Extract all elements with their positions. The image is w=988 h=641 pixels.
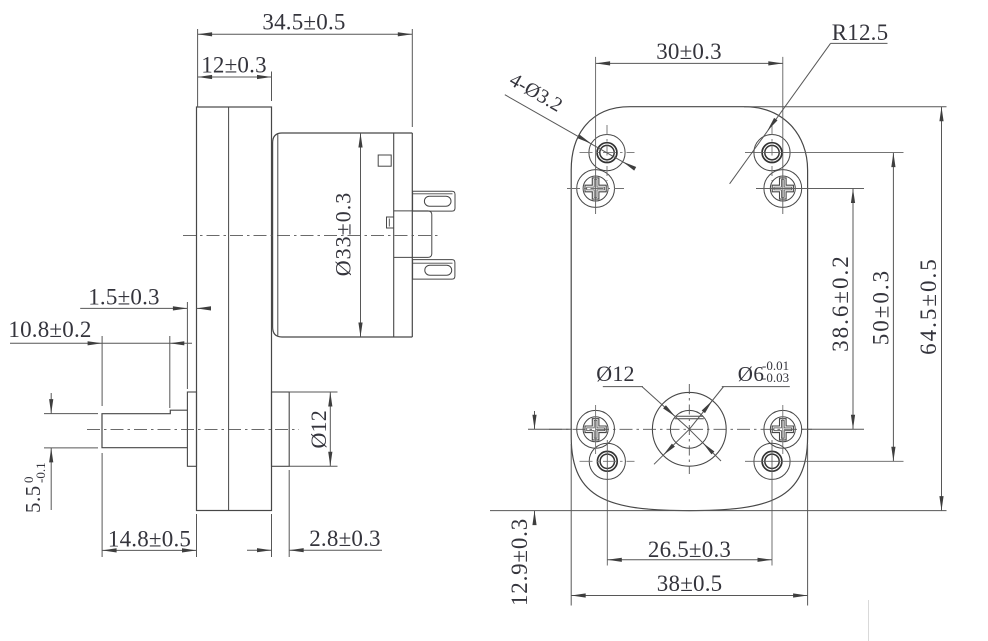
mounting hole Ø3.2 bottom-right [754,443,790,479]
rear boss [272,392,290,466]
svg-text:Ø12: Ø12 [596,361,635,386]
label Ø12 (boss) [596,361,643,387]
terminal tab lower [413,260,455,280]
svg-text:38.6±0.2: 38.6±0.2 [828,254,853,352]
dimension 26.5±0.3 (bottom hole spacing) [607,537,772,562]
dimension 12.9±0.3 (center to bottom edge) [507,411,572,606]
dimension Ø12 (boss diameter, side view) [289,392,337,466]
motor end cap line [393,133,395,337]
phillips screw lower-right [764,410,802,448]
faint frame line bottom right [868,600,870,641]
right view: front face of gearbox [571,107,807,511]
svg-text:2.8±0.3: 2.8±0.3 [309,526,381,551]
dimension 64.5±0.5 (overall height) [490,107,947,511]
terminal slot upper [424,196,451,206]
hole center lines [567,57,904,566]
motor axis center line [183,235,440,237]
svg-text:Ø6: Ø6 [738,362,765,386]
dimension 14.8±0.5 (shaft protrusion) [102,453,196,557]
mounting hole Ø3.2 top-left [589,135,625,171]
motor body [273,133,413,337]
label Ø6 -0.01/-0.03 (bore) [722,358,790,387]
gearbox body [197,107,272,511]
motor crimp line [277,135,279,336]
dimension 30±0.3 (screw spacing horizontal) [596,39,783,66]
dimension 38±0.5 (overall width) [571,444,807,606]
svg-text:50±0.3: 50±0.3 [869,269,894,345]
svg-text:Ø12: Ø12 [306,410,331,449]
phillips screw upper-left [577,170,615,208]
terminal slot lower [425,265,452,275]
central shaft boss Ø12 with Ø6 bore [642,384,726,474]
dimension 2.8±0.3 (rear boss) [247,470,382,557]
boss vertical center line [688,384,690,474]
svg-text:26.5±0.3: 26.5±0.3 [648,537,731,562]
brush cap detail [378,155,391,166]
phillips screw upper-right [764,170,802,208]
mounting hole Ø3.2 bottom-left [589,443,625,479]
main horizontal center line [549,428,812,430]
dimension 50±0.3 (hole spacing vertical) [869,153,896,462]
svg-text:1.5±0.3: 1.5±0.3 [88,285,160,310]
mounting hole Ø3.2 top-right [754,135,790,171]
svg-text:30±0.3: 30±0.3 [656,39,722,64]
gearbox face plate outline [571,107,807,511]
svg-text:64.5±0.5: 64.5±0.5 [916,257,941,355]
svg-text:14.8±0.5: 14.8±0.5 [108,527,191,552]
dimension 1.5±0.3 (boss plate) [80,285,211,390]
svg-text:R12.5: R12.5 [832,20,889,45]
dimension 34.5±0.5 (overall length) [198,10,413,128]
side notch detail [387,217,394,228]
svg-text:12±0.3: 12±0.3 [201,53,267,78]
terminal tab upper [413,191,455,211]
gearbox parting line [228,107,230,511]
svg-text:-0.03: -0.03 [762,370,789,385]
svg-text:Ø33±0.3: Ø33±0.3 [331,192,356,276]
svg-text:38±0.5: 38±0.5 [657,571,723,596]
dimension 5.5 0/-0.1 (shaft flat height) [21,393,98,513]
output shaft [102,410,187,448]
connector body [394,211,432,258]
svg-text:10.8±0.2: 10.8±0.2 [8,317,91,342]
shaft axis center line [87,428,299,430]
svg-text:-0.1: -0.1 [33,462,48,483]
svg-text:12.9±0.3: 12.9±0.3 [507,518,532,606]
dimension 38.6±0.2 (screw spacing vertical) [802,189,865,430]
left view: side elevation of gear motor [87,107,455,511]
dimension Ø33±0.3 (motor diameter) [331,133,363,337]
leader 4-Ø3.2 (mounting holes) [505,69,636,171]
diagonal leader legs [642,387,689,430]
svg-text:5.5: 5.5 [21,485,45,513]
dimension 10.8±0.2 (shaft flat length) [8,317,192,408]
front bearing boss [187,392,196,466]
leader R12.5 (corner radius) [730,20,889,184]
phillips screw lower-left [577,410,615,448]
svg-text:34.5±0.5: 34.5±0.5 [262,10,345,35]
dimension 12±0.3 (gearbox depth) [198,53,272,102]
shaft flat chord [676,415,704,417]
